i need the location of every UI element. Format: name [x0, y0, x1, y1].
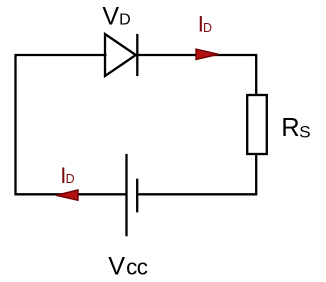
current arrow ID bottom (points left): [56, 190, 78, 200]
resistor RS body: [247, 95, 267, 154]
svg-text:S: S: [299, 122, 310, 141]
wire left loop: top-left corner, left side, bottom-left to battery: [16, 55, 126, 194]
wire: diode cathode to top-right corner down to resistor top: [138, 55, 256, 95]
battery Vcc short plate (-): [136, 179, 138, 213]
diode D1 triangle (anode): [105, 34, 136, 76]
svg-text:V: V: [108, 252, 125, 280]
svg-text:D: D: [203, 21, 212, 35]
svg-text:V: V: [102, 3, 119, 31]
svg-text:cc: cc: [126, 254, 148, 279]
wire: resistor bottom to bottom-right corner to battery short plate: [138, 154, 256, 194]
svg-text:R: R: [281, 114, 299, 142]
svg-text:D: D: [119, 12, 131, 29]
svg-text:D: D: [66, 172, 75, 186]
current arrow ID top (points right): [196, 49, 219, 59]
diode D1 cathode bar: [136, 34, 138, 76]
battery Vcc long plate (+): [125, 154, 127, 236]
